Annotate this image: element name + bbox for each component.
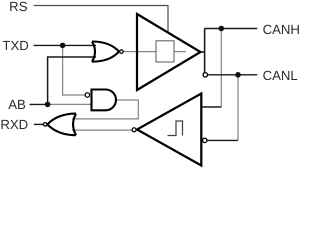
- wire NOR output to driver: [123, 51, 137, 53]
- svg-text:RXD: RXD: [0, 117, 28, 132]
- svg-text:AB: AB: [8, 97, 26, 112]
- wire CANL line: [208, 74, 257, 76]
- bubble receiver inverting input: [203, 138, 207, 142]
- wire CANL tap down to receiver input 2: [237, 75, 239, 141]
- node TXD junction: [60, 43, 66, 49]
- svg-text:RS: RS: [9, 0, 28, 14]
- bubble AND inverted input: [85, 93, 89, 97]
- wire RXD lead: [34, 123, 43, 125]
- node CANL junction: [235, 72, 241, 78]
- wire receiver top input: [201, 106, 221, 108]
- wire driver internal input: [138, 51, 157, 53]
- gate U2 AND autobaud: [92, 90, 117, 111]
- wire driver output bar: [204, 29, 206, 73]
- node AB junction: [45, 102, 51, 108]
- wire AB branch up to NOR input 2: [48, 57, 96, 104]
- driver D1 triangle: [137, 14, 201, 90]
- svg-text:CANL: CANL: [263, 68, 298, 83]
- bubble receiver inverted output: [132, 128, 136, 132]
- bubble NOR output: [120, 50, 124, 54]
- hysteresis symbol: [168, 121, 183, 136]
- wire TXD to NOR input 1: [34, 44, 97, 46]
- wire driver tip stub: [199, 51, 205, 53]
- wire AB lead: [30, 103, 48, 105]
- gate U3 NOR mirrored RXD output: [47, 114, 76, 136]
- wire RS to driver slope control: [34, 6, 169, 34]
- svg-text:CANH: CANH: [263, 22, 300, 37]
- wire receiver output to RXD gate input 2: [72, 129, 132, 131]
- slope control box: [156, 41, 174, 62]
- bubble RXD gate output: [43, 123, 47, 127]
- node CANH junction: [219, 26, 225, 32]
- wire CANH line: [205, 28, 258, 30]
- gate U1 NOR driver input: [92, 42, 119, 62]
- wire AB to AND input 2: [48, 103, 92, 105]
- receiver R1 triangle: [137, 94, 201, 166]
- wire CANH tap down to receiver input 1: [220, 29, 222, 108]
- wire AND output to RXD gate input 1: [72, 100, 138, 119]
- svg-text:TXD: TXD: [2, 38, 28, 53]
- wire receiver bottom input: [207, 139, 238, 141]
- wire driver internal output: [174, 51, 186, 53]
- bubble CANL inverted driver output: [203, 73, 207, 77]
- wire TXD branch down to AND inverted input: [63, 45, 85, 95]
